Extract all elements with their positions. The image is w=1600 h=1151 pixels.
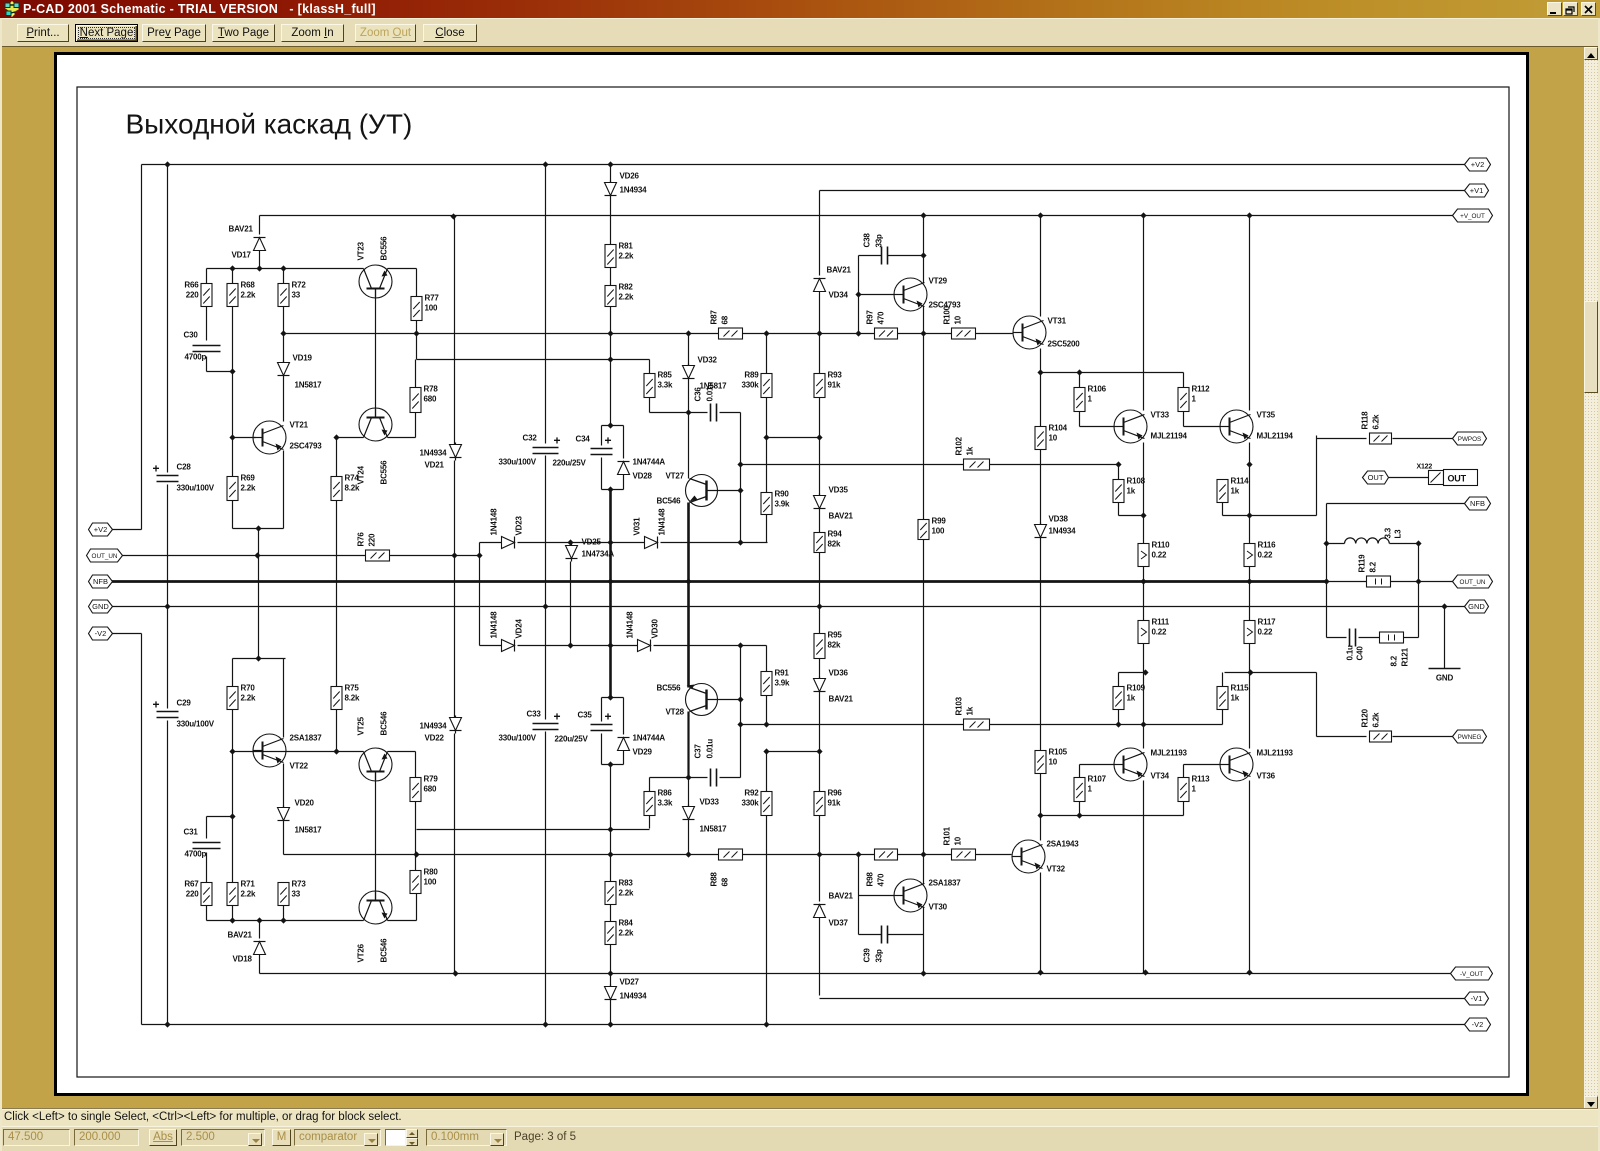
svg-text:R72: R72 [292, 281, 307, 290]
svg-text:1N4148: 1N4148 [490, 508, 499, 536]
svg-text:C31: C31 [184, 828, 199, 837]
svg-text:VD34: VD34 [829, 291, 849, 300]
junction dots [164, 161, 170, 167]
svg-text:R114: R114 [1231, 477, 1250, 486]
wire [416, 269, 418, 297]
svg-text:33: 33 [292, 890, 301, 899]
wire +V2 top bus [142, 164, 1465, 166]
svg-text:220u/25V: 220u/25V [555, 735, 589, 744]
diode VD23 [502, 537, 515, 549]
wire [232, 269, 234, 284]
svg-text:100: 100 [425, 304, 438, 313]
svg-text:BC556: BC556 [380, 236, 389, 261]
svg-text:GND: GND [1436, 674, 1454, 683]
svg-text:NFB: NFB [93, 577, 108, 586]
transistor VT25 [359, 748, 392, 781]
wire R69 [232, 438, 234, 477]
wire VD22 column [454, 556, 456, 718]
svg-text:BAV21: BAV21 [829, 892, 854, 901]
svg-text:R120: R120 [1361, 708, 1370, 727]
diode VD21 [450, 445, 462, 458]
transistor VT31 [1013, 316, 1046, 349]
diode VD38 [1035, 525, 1047, 538]
resistor R75 [331, 687, 342, 710]
svg-text:+V_OUT: +V_OUT [1460, 213, 1485, 220]
svg-text:1N4148: 1N4148 [490, 611, 499, 639]
vertical scrollbar [1584, 47, 1598, 1109]
resistor R107 [1074, 778, 1085, 802]
resistor R89 [761, 374, 772, 398]
svg-text:VD17: VD17 [232, 251, 252, 260]
svg-text:+: + [153, 698, 160, 712]
wire R112 [1183, 412, 1185, 427]
svg-text:2.2k: 2.2k [619, 929, 635, 938]
diode VD37 [814, 905, 826, 918]
application icon [4, 1, 20, 17]
Next Page button (default, focused) [75, 24, 138, 42]
svg-text:VD35: VD35 [829, 486, 849, 495]
svg-text:R104: R104 [1049, 424, 1068, 433]
svg-text:8.2k: 8.2k [345, 694, 361, 703]
wire [283, 269, 285, 284]
port OUT_UN [87, 549, 123, 562]
svg-text:C36: C36 [694, 387, 703, 402]
wire [415, 360, 417, 388]
capacitor C33 [533, 723, 559, 725]
wire C38 [859, 255, 882, 257]
svg-text:GND: GND [1468, 602, 1485, 611]
wire y724 [741, 724, 964, 726]
wire VD25 tail [570, 562, 572, 646]
svg-text:VD24: VD24 [515, 619, 524, 639]
wire VT30 cols [923, 855, 925, 884]
capacitor C28 [157, 475, 179, 477]
resistor R71 [227, 883, 238, 906]
port +V1 [1465, 184, 1489, 197]
diode VD31 [645, 537, 658, 549]
svg-text:0.22: 0.22 [1258, 551, 1274, 560]
diode VD29 [618, 738, 630, 751]
resistor R69 [227, 477, 238, 501]
svg-text:10: 10 [954, 315, 963, 324]
svg-text:1N4934: 1N4934 [420, 722, 448, 731]
port GND [1465, 600, 1489, 613]
transistor VT35 [1220, 410, 1253, 443]
resistor R81 [605, 245, 616, 268]
wire y829 [417, 829, 650, 831]
svg-text:3.3k: 3.3k [658, 381, 674, 390]
svg-text:1: 1 [1192, 395, 1197, 404]
svg-text:-V1: -V1 [1471, 994, 1483, 1003]
svg-text:1: 1 [1088, 395, 1093, 404]
wire VT24 row [337, 437, 364, 439]
wire PWNEG [1316, 673, 1318, 737]
wire col x923 mid [923, 334, 925, 520]
svg-text:10: 10 [1049, 758, 1058, 767]
diode VD17 [254, 238, 266, 251]
svg-text:VD25: VD25 [582, 538, 602, 547]
svg-text:R68: R68 [241, 281, 256, 290]
transistor VT33 [1114, 410, 1147, 443]
transistor VT26 [359, 891, 392, 924]
svg-text:BC546: BC546 [380, 938, 389, 963]
svg-text:VD22: VD22 [425, 734, 445, 743]
svg-text:VT22: VT22 [290, 762, 309, 771]
diode VD18 [254, 942, 266, 955]
svg-text:R112: R112 [1192, 385, 1211, 394]
diode VD20 [278, 808, 290, 821]
svg-text:1N4934: 1N4934 [420, 449, 448, 458]
wire y333 [284, 333, 719, 335]
svg-text:R77: R77 [425, 294, 440, 303]
svg-text:R96: R96 [828, 789, 843, 798]
svg-text:330u/100V: 330u/100V [177, 484, 215, 493]
svg-text:R121: R121 [1401, 647, 1410, 666]
capacitor C36 [710, 404, 712, 422]
Zoom Out button (disabled) [355, 24, 416, 42]
resistor R113 [1178, 778, 1189, 802]
resistor R77 [411, 297, 422, 321]
wire x610 to blocks [610, 426, 612, 490]
wire R91 [766, 646, 768, 672]
port OUT [1363, 471, 1389, 484]
wire [259, 216, 261, 235]
resistor R100 [952, 328, 976, 339]
resistor R114 [1217, 480, 1228, 503]
svg-text:R93: R93 [828, 371, 843, 380]
status bar [0, 1108, 1600, 1126]
wire x610 bold [609, 490, 612, 692]
svg-text:VD27: VD27 [620, 978, 640, 987]
svg-text:VT27: VT27 [666, 472, 685, 481]
svg-text:2SA1837: 2SA1837 [290, 734, 323, 743]
wire [258, 529, 260, 556]
schematic sheet inner frame [77, 87, 1509, 1077]
svg-text:R76: R76 [357, 532, 366, 547]
svg-text:R110: R110 [1152, 541, 1171, 550]
svg-text:R108: R108 [1127, 477, 1146, 486]
svg-text:VD20: VD20 [295, 799, 315, 808]
svg-text:R101: R101 [943, 826, 952, 845]
svg-text:V031: V031 [633, 517, 642, 536]
svg-text:8.2: 8.2 [1390, 655, 1399, 666]
wire col x688 [688, 334, 690, 366]
svg-text:2.2k: 2.2k [241, 890, 257, 899]
svg-text:330k: 330k [742, 799, 760, 808]
wire y658 [233, 658, 286, 660]
transistor VT23 [359, 265, 392, 298]
transistor VT22 [253, 734, 286, 767]
wire filter rail [167, 165, 169, 473]
resistor R116 [1244, 544, 1255, 567]
port +V2 [89, 523, 113, 536]
maximize/restore button [1563, 2, 1578, 16]
diode VD19 [278, 363, 290, 376]
svg-text:1N5817: 1N5817 [295, 381, 323, 390]
svg-text:VT26: VT26 [357, 943, 366, 962]
svg-text:R92: R92 [744, 789, 759, 798]
bottom toolbar [0, 1126, 1600, 1151]
svg-text:2.2k: 2.2k [619, 293, 635, 302]
svg-text:1N5817: 1N5817 [295, 826, 323, 835]
svg-text:0.22: 0.22 [1152, 551, 1168, 560]
svg-text:R85: R85 [658, 371, 673, 380]
svg-text:PWPOS: PWPOS [1458, 436, 1481, 443]
resistor R106 [1074, 388, 1085, 412]
svg-text:+V2: +V2 [94, 525, 108, 534]
resistor R108 [1113, 480, 1124, 503]
svg-text:R71: R71 [241, 880, 256, 889]
svg-text:330u/100V: 330u/100V [177, 720, 215, 729]
svg-text:91k: 91k [828, 381, 841, 390]
capacitor C37 [710, 769, 712, 787]
wire R92 [766, 816, 768, 855]
transistor VT27 [686, 475, 718, 507]
svg-text:VD23: VD23 [515, 516, 524, 536]
svg-text:C39: C39 [863, 948, 872, 963]
svg-text:2SC4793: 2SC4793 [290, 442, 323, 451]
capacitor C38 [881, 247, 883, 265]
svg-text:10: 10 [954, 836, 963, 845]
svg-text:4700p: 4700p [185, 353, 207, 362]
port -V1 [1465, 992, 1489, 1005]
minimize button [1547, 2, 1562, 16]
svg-text:+: + [153, 462, 160, 476]
svg-text:BAV21: BAV21 [827, 266, 852, 275]
svg-text:1k: 1k [1231, 487, 1240, 496]
svg-text:-V2: -V2 [1472, 1020, 1484, 1029]
transistor VT30 [894, 879, 927, 912]
svg-text:1k: 1k [966, 446, 975, 455]
wire PWPOS [1316, 436, 1318, 516]
wire y437 right [767, 437, 820, 439]
wire y672 [1119, 672, 1146, 674]
wire R106 [1079, 373, 1081, 388]
diode VD32 [683, 366, 695, 379]
svg-text:R67: R67 [184, 880, 199, 889]
svg-text:2SC5200: 2SC5200 [1048, 340, 1081, 349]
svg-text:R70: R70 [241, 684, 256, 693]
resistor R112 [1178, 388, 1189, 412]
port NFB [89, 575, 113, 588]
svg-text:1N4148: 1N4148 [658, 508, 667, 536]
wire NFB right [1327, 503, 1465, 505]
svg-text:470: 470 [877, 873, 886, 886]
svg-text:VD36: VD36 [829, 669, 849, 678]
wire bottom row [207, 920, 364, 922]
svg-text:220: 220 [186, 890, 199, 899]
svg-text:4700p: 4700p [185, 850, 207, 859]
svg-text:VT35: VT35 [1257, 411, 1276, 420]
svg-text:2.2k: 2.2k [619, 889, 635, 898]
svg-text:8.2k: 8.2k [345, 484, 361, 493]
svg-text:-V2: -V2 [95, 629, 107, 638]
svg-text:VD37: VD37 [829, 919, 849, 928]
wire GND bus [111, 606, 1465, 608]
svg-text:330u/100V: 330u/100V [499, 734, 537, 743]
resistor R92 [761, 792, 772, 816]
wire col x1143 [1143, 216, 1145, 411]
wire VT21 emitter [283, 451, 285, 529]
diode VD24 [502, 640, 515, 652]
svg-text:1N4934: 1N4934 [620, 186, 648, 195]
wire -V1 bus [820, 998, 1465, 1000]
svg-text:3.9k: 3.9k [775, 500, 791, 509]
svg-text:BC556: BC556 [657, 684, 682, 693]
svg-text:1N4734A: 1N4734A [582, 550, 615, 559]
capacitor C34 [591, 448, 613, 450]
resistor R99 [918, 520, 929, 540]
port +V2 [1465, 158, 1491, 171]
svg-text:VD29: VD29 [633, 748, 653, 757]
wire R86 [649, 778, 651, 792]
resistor R103 [964, 719, 990, 730]
svg-text:33p: 33p [875, 234, 884, 247]
svg-text:1: 1 [1088, 785, 1093, 794]
svg-text:33: 33 [292, 291, 301, 300]
resistor R67 [201, 883, 212, 906]
resistor R85 [644, 374, 655, 398]
resistor R119 [1367, 576, 1391, 587]
wire y464 [741, 464, 964, 466]
transistor VT34 [1114, 748, 1147, 781]
resistor R91 [761, 672, 772, 696]
wire VT27 base column [740, 413, 742, 543]
resistor R73 [278, 883, 289, 906]
svg-text:100: 100 [424, 878, 437, 887]
transistor VT28 [686, 684, 718, 716]
svg-text:91k: 91k [828, 799, 841, 808]
svg-text:VT25: VT25 [357, 716, 366, 735]
svg-text:MJL21194: MJL21194 [1257, 432, 1294, 441]
wire VT22 [232, 659, 234, 687]
wire col x610 [610, 165, 612, 183]
resistor R102 [964, 459, 990, 470]
svg-text:0.01u: 0.01u [706, 382, 715, 402]
diode VD30 [638, 640, 651, 652]
svg-text:10: 10 [1049, 434, 1058, 443]
wire C31 branch [206, 817, 208, 839]
svg-text:PWNEG: PWNEG [1458, 734, 1482, 741]
svg-text:C29: C29 [177, 699, 192, 708]
wire GND drop [1444, 607, 1446, 669]
port PWPOS [1453, 432, 1487, 445]
wire L3 top [1327, 543, 1345, 545]
wire VT28 base column [740, 646, 742, 778]
resistor R78 [410, 388, 421, 413]
wire NFB thick bus [111, 580, 1327, 583]
svg-text:3.3: 3.3 [1384, 527, 1393, 538]
wire +V2 left port stub [111, 529, 142, 531]
svg-text:330k: 330k [742, 381, 760, 390]
wire VD18 [259, 921, 261, 939]
svg-text:VT30: VT30 [929, 903, 948, 912]
svg-text:C34: C34 [576, 435, 591, 444]
port -V2 [89, 627, 113, 640]
svg-text:0.1u: 0.1u [1346, 645, 1355, 661]
transistor VT24 [359, 408, 392, 441]
svg-text:VT34: VT34 [1151, 772, 1170, 781]
Prev Page button [142, 24, 206, 42]
svg-text:+: + [554, 434, 561, 448]
wire VT25/26 join [375, 772, 377, 901]
svg-text:MJL21193: MJL21193 [1151, 749, 1188, 758]
diode VD33 [683, 807, 695, 820]
svg-text:R74: R74 [345, 474, 360, 483]
resistor R82 [605, 286, 616, 307]
svg-text:+: + [554, 710, 561, 724]
svg-text:VD33: VD33 [700, 798, 720, 807]
resistor R110 [1138, 544, 1149, 567]
wire +V1 bus [820, 190, 1465, 192]
Print button [17, 24, 69, 42]
Two Page button [212, 24, 275, 42]
capacitor C35 [591, 724, 613, 726]
svg-text:1: 1 [1192, 785, 1197, 794]
svg-text:+: + [605, 434, 612, 448]
svg-text:1k: 1k [1127, 487, 1136, 496]
ground symbol GND [1429, 668, 1461, 670]
svg-text:VT23: VT23 [357, 241, 366, 260]
svg-text:BAV21: BAV21 [229, 225, 254, 234]
svg-text:0.22: 0.22 [1258, 628, 1274, 637]
resistor R70 [227, 687, 238, 710]
svg-text:VT31: VT31 [1048, 317, 1067, 326]
svg-text:C38: C38 [863, 233, 872, 248]
svg-text:VD26: VD26 [620, 172, 640, 181]
wire left rail V2 [141, 165, 143, 530]
svg-text:2.2k: 2.2k [241, 484, 257, 493]
wire C35 block [602, 697, 624, 699]
svg-text:OUT: OUT [1448, 474, 1467, 484]
svg-text:8.2: 8.2 [1369, 561, 1378, 572]
wire y854 [284, 854, 719, 856]
svg-text:BAV21: BAV21 [829, 512, 854, 521]
svg-text:R95: R95 [828, 631, 843, 640]
wire y542 [480, 542, 502, 544]
window title bar [0, 18, 2, 1151]
svg-text:NFB: NFB [1470, 499, 1485, 508]
svg-text:R106: R106 [1088, 385, 1107, 394]
resistor R97 [875, 328, 898, 339]
svg-text:R118: R118 [1361, 411, 1370, 430]
svg-text:MJL21193: MJL21193 [1257, 749, 1294, 758]
capacitor C32 [533, 447, 559, 449]
svg-text:BAV21: BAV21 [228, 931, 253, 940]
svg-text:R97: R97 [866, 310, 875, 325]
resistor R76 [366, 550, 390, 561]
svg-text:C40: C40 [1356, 646, 1365, 661]
svg-text:R91: R91 [775, 669, 790, 678]
diode VD27 [605, 987, 617, 1000]
Close button [423, 24, 477, 42]
svg-text:C28: C28 [177, 463, 192, 472]
Zoom In button [281, 24, 344, 42]
wire y372 [1041, 372, 1184, 374]
wire [283, 824, 285, 855]
svg-text:2SA1943: 2SA1943 [1047, 840, 1080, 849]
resistor R94 [814, 533, 825, 553]
capacitor C40 [1349, 629, 1351, 647]
svg-text:C30: C30 [184, 331, 199, 340]
svg-text:VT33: VT33 [1151, 411, 1170, 420]
svg-text:1N4934: 1N4934 [1049, 527, 1077, 536]
wire lower rows [388, 751, 416, 753]
svg-text:VT28: VT28 [666, 708, 685, 717]
wire OUT_UN left [121, 555, 366, 557]
resistor R96 [814, 792, 825, 816]
toolbar [0, 18, 1600, 46]
